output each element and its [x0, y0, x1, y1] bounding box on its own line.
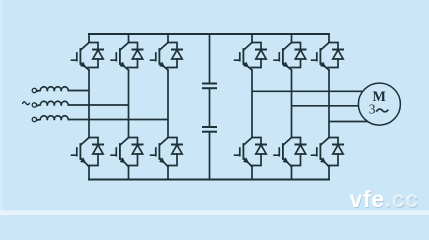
transistor V3 (IGBT) [111, 34, 128, 70]
diode VD6 (freewheeling, anti-parallel with V6) [167, 138, 182, 166]
wire: inverter output V to motor [292, 105, 359, 107]
AC source symbol (~) [23, 102, 30, 105]
diode VD3 (freewheeling, anti-parallel with V3) [128, 43, 143, 68]
diode VD12 (freewheeling, anti-parallel with V12) [328, 138, 343, 166]
svg-text:3: 3 [369, 102, 376, 117]
diode VD4 (freewheeling, anti-parallel with V4) [128, 138, 143, 166]
transistor V8 (IGBT) [235, 138, 252, 167]
wire: rectifier leg 1 emitter to bottom rail [88, 167, 90, 180]
terminal: phase C input [32, 117, 36, 121]
wire: phase A from L1 to rectifier leg 1 [68, 90, 90, 92]
inductor L1 (line reactor, phase A) [37, 87, 69, 91]
transistor V6 (IGBT) [151, 138, 168, 167]
diode VD2 (freewheeling, anti-parallel with V2) [88, 138, 103, 166]
diode VD5 (freewheeling, anti-parallel with V5) [167, 43, 182, 68]
wire: rectifier leg 2 emitter to bottom rail [128, 167, 130, 180]
transistor V12 (IGBT) [312, 138, 329, 167]
transistor V7 (IGBT) [235, 34, 252, 70]
terminal: phase B input [32, 103, 36, 107]
wire: inverter leg 2 emitter to bottom rail [291, 167, 293, 180]
wire: rectifier leg 3 emitter to bottom rail [167, 167, 169, 180]
wire: between C1 and C2 [209, 88, 211, 127]
diode VD11 (freewheeling, anti-parallel with V11) [328, 43, 343, 68]
wire: inverter leg 1 midpoint (output node) [251, 70, 253, 138]
diode VD8 (freewheeling, anti-parallel with V8) [251, 138, 266, 166]
transistor V10 (IGBT) [274, 138, 291, 167]
wire: inverter leg 3 midpoint (output node) [328, 70, 330, 138]
transistor V1 (IGBT) [72, 34, 89, 70]
diode VD9 (freewheeling, anti-parallel with V9) [291, 43, 306, 68]
wire: rectifier leg 1 midpoint (phase node) [88, 70, 90, 138]
wire: phase B from L2 to rectifier leg 2 [68, 104, 129, 106]
svg-text:vfe.cc: vfe.cc [350, 186, 419, 212]
wire: negative DC bus (bottom rail) [89, 179, 329, 181]
inductor L2 (line reactor, phase B) [37, 101, 69, 105]
diode VD1 (freewheeling, anti-parallel with V1) [88, 43, 103, 68]
wire: rectifier leg 2 midpoint (phase node) [128, 70, 130, 138]
inductor L3 (line reactor, phase C) [37, 116, 69, 120]
wire: inverter leg 3 emitter to bottom rail [328, 167, 330, 180]
capacitor C2 [202, 127, 217, 132]
terminal: phase A input [32, 88, 36, 92]
transistor V2 (IGBT) [72, 138, 89, 167]
capacitor C1 [202, 84, 217, 89]
transistor V11 (IGBT) [312, 34, 329, 70]
diode VD10 (freewheeling, anti-parallel with V10) [291, 138, 306, 166]
wire: from C2 to bottom rail [209, 132, 211, 180]
motor M (3-phase) [358, 83, 400, 125]
wire: DC-link branch from top rail to C1 [209, 34, 211, 84]
wire: inverter output W to motor [329, 121, 368, 123]
wire: inverter leg 1 emitter to bottom rail [251, 167, 253, 180]
transistor V4 (IGBT) [111, 138, 128, 167]
wire: inverter output U to motor [252, 90, 363, 92]
wire: inverter leg 2 midpoint (output node) [291, 70, 293, 138]
watermark: vfe.cc [350, 186, 420, 213]
transistor V9 (IGBT) [274, 34, 291, 70]
wire: phase C from L3 to rectifier leg 3 [68, 119, 169, 121]
wire: rectifier leg 3 midpoint (phase node) [167, 70, 169, 138]
diode VD7 (freewheeling, anti-parallel with V7) [251, 43, 266, 68]
transistor V5 (IGBT) [151, 34, 168, 70]
wire: positive DC bus (top rail) [89, 33, 329, 35]
